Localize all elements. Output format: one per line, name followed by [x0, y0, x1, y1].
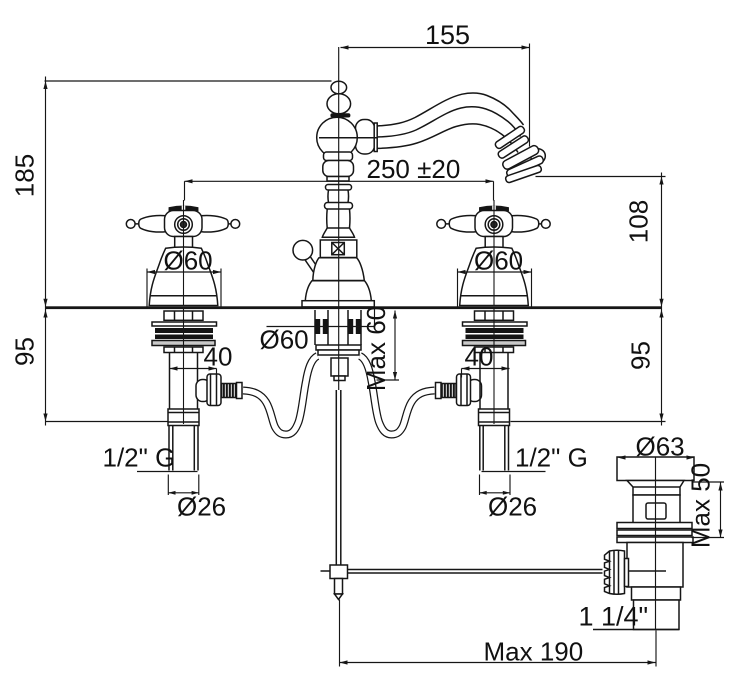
dimension 250 +-20 (handle centres) [185, 154, 494, 201]
finial large ball [327, 94, 351, 114]
right valve bulb [468, 380, 482, 402]
centre inlet tube left [315, 310, 328, 345]
mounting block [320, 240, 357, 258]
pop-up rod [336, 390, 341, 565]
right handle right ball [541, 220, 550, 229]
centre bell plinth [302, 301, 374, 307]
svg-text:1/2" G: 1/2" G [103, 443, 176, 473]
aerator outlet band [505, 165, 542, 184]
pop-up rod coupling block [330, 565, 348, 579]
left hose corrugated connector [222, 384, 238, 398]
right shank hex nut [475, 347, 514, 353]
drain flange [617, 457, 694, 481]
left shank hex nut [164, 347, 203, 353]
drain washer 1 [617, 523, 692, 529]
left handle hub circles [175, 216, 193, 234]
left handle cap [169, 206, 197, 210]
left handle centreline [183, 200, 185, 305]
right handle right teardrop arm [511, 215, 539, 232]
mounting block X square [332, 243, 345, 255]
left valve hex body [207, 374, 221, 406]
right shank washer 1 [463, 322, 528, 326]
spout tube bottom line [377, 124, 518, 153]
dimension Ø26 left [168, 475, 226, 522]
left hose end ring [237, 383, 243, 399]
label 1/2" G right [482, 443, 588, 473]
centre bell lower dome [305, 281, 371, 301]
aerator band 3 [501, 144, 540, 170]
drain flange taper [627, 481, 684, 496]
right handle arm line [441, 223, 547, 225]
left valve bulb [196, 380, 210, 402]
drain centreline [655, 457, 657, 630]
label 1 1/4" (drain thread) [579, 602, 649, 632]
drain rod knurled nut [605, 550, 625, 595]
dimension 40 right [462, 342, 510, 378]
left handle hub [165, 211, 203, 237]
spout tube middle line [377, 107, 521, 137]
left handle right teardrop arm [201, 215, 229, 232]
dimension Max 190 (bottom) [340, 600, 657, 667]
centre tailpiece [331, 358, 348, 381]
right shank centreline [493, 309, 495, 424]
label 1/2" G left [103, 443, 198, 473]
svg-text:Ø26: Ø26 [488, 492, 537, 522]
left shank centreline [183, 309, 185, 424]
left handle right ball [231, 220, 240, 229]
left shank washer 2 (dark) [155, 328, 213, 333]
right shank washer 4 (grey) [463, 341, 526, 346]
drain tailpipe bottom / 1 1/4 underline [593, 629, 679, 631]
dimension Ø60 right handle [458, 246, 532, 307]
faucet centreline [338, 47, 340, 390]
drain rod nut collar [625, 559, 629, 587]
column ring 2 [325, 203, 353, 210]
svg-text:Ø60: Ø60 [260, 325, 309, 355]
right shank coupling nut [479, 409, 510, 426]
column ring 1 [326, 185, 352, 191]
dimension Max 60 (deck thickness centre) [361, 306, 399, 391]
dimension 95 right [511, 307, 666, 426]
column flare [322, 228, 354, 237]
aerator band 2 [497, 135, 530, 160]
right hose [360, 356, 435, 435]
right shank upper tube [480, 353, 508, 410]
svg-text:185: 185 [10, 154, 40, 197]
right hose end ring [436, 383, 442, 399]
left shank coupling nut [168, 409, 199, 426]
drain lower body [627, 543, 683, 588]
right valve hex body [457, 374, 471, 406]
right handle hub [475, 211, 513, 237]
pop-up lever rod [305, 256, 321, 276]
centre clamp plate [316, 345, 361, 355]
svg-text:Ø60: Ø60 [164, 246, 213, 276]
svg-text:Ø26: Ø26 [177, 492, 226, 522]
aerator band 4 [506, 155, 545, 178]
deck / mounting surface [45, 306, 661, 309]
right handle group (centre x=494) [437, 200, 550, 306]
spout body (round chamber) [317, 117, 358, 158]
label Ø60 centre column [260, 309, 375, 355]
dimension 155 (top, spout reach) [341, 20, 530, 147]
column rim [327, 177, 349, 182]
left shank washer 3 (dark) [155, 335, 213, 340]
right handle cap [480, 206, 508, 210]
right handle hub circles [485, 216, 503, 234]
left shank washer 1 [152, 322, 217, 326]
svg-text:40: 40 [204, 342, 233, 372]
svg-text:40: 40 [465, 342, 494, 372]
left hose [243, 356, 318, 435]
svg-text:250 ±20: 250 ±20 [367, 154, 461, 184]
column shaft [327, 209, 350, 228]
right handle left teardrop arm [449, 215, 477, 232]
svg-text:Max 50: Max 50 [686, 463, 716, 548]
right handle bell [460, 247, 529, 306]
dimension Ø26 right [480, 475, 538, 522]
left handle bell [149, 247, 218, 306]
svg-text:Max 60: Max 60 [361, 306, 391, 391]
pop-up rod lower pin [335, 579, 343, 600]
right handle left ball [437, 220, 446, 229]
left shank locknut [164, 311, 203, 320]
column barrel bulge [323, 161, 354, 177]
left handle left teardrop arm [139, 215, 167, 232]
left shank washer 4 (grey) [152, 341, 215, 346]
drain washer 3 [617, 537, 693, 543]
right shank lower tube [480, 426, 509, 471]
pop-up lever ball [293, 240, 313, 260]
finial small ball [331, 81, 347, 94]
right shank locknut [475, 311, 514, 320]
dimension 40 left (hose offset) [170, 342, 233, 378]
dimension 108 (right, spout outlet height) [536, 173, 666, 307]
svg-text:Ø63: Ø63 [636, 432, 685, 462]
centre inlet tube right [348, 310, 361, 345]
left handle left ball [126, 220, 135, 229]
left handle group (centre x=183.5) [126, 200, 239, 306]
drain body square detail [646, 503, 666, 519]
drain tailpipe [634, 600, 680, 630]
right shank washer 2 (dark) [466, 328, 524, 333]
horizontal drain rod [348, 570, 603, 574]
dimension 95 left (depth below deck) [10, 307, 169, 426]
column waist [328, 190, 349, 203]
svg-text:Ø60: Ø60 [474, 246, 523, 276]
drain upper body [633, 495, 680, 523]
aerator band 1 [494, 125, 526, 150]
right handle bell ridge [460, 295, 528, 297]
svg-text:1/2" G: 1/2" G [515, 443, 588, 473]
left shank lower tube [169, 426, 198, 471]
svg-text:155: 155 [425, 20, 470, 50]
centre bell upper dome [313, 258, 365, 281]
right handle centreline [493, 200, 495, 305]
left handle bell ridge [150, 295, 218, 297]
spout connector egg [356, 120, 375, 155]
spout connector collar [374, 123, 377, 152]
spout tube top line [377, 93, 524, 126]
left handle arm line [130, 223, 236, 225]
right shank washer 3 (dark) [466, 335, 524, 340]
svg-text:108: 108 [624, 200, 654, 243]
right handle stem [485, 237, 503, 249]
left handle stem [175, 237, 193, 249]
svg-text:Max 190: Max 190 [484, 637, 584, 667]
svg-text:1 1/4": 1 1/4" [579, 602, 649, 632]
drain transition [632, 587, 681, 600]
dimension Max 50 (drain deck range) [686, 463, 725, 548]
svg-text:95: 95 [10, 337, 40, 366]
left shank upper tube [170, 353, 198, 410]
dimension Ø60 left handle [147, 246, 221, 307]
aerator end cap ball [531, 149, 546, 164]
drain washer 2 [617, 530, 692, 536]
spout axis line [319, 137, 377, 139]
column shoulder band [324, 152, 353, 161]
svg-text:95: 95 [626, 341, 656, 370]
right hose corrugated connector [441, 384, 457, 398]
dimension Ø63 (drain flange) [618, 432, 695, 462]
drain rod inside body [628, 570, 666, 572]
ball seat dark band [330, 113, 350, 117]
dimension 185 (left, height above deck) [10, 77, 332, 307]
pop-up rod coupling tick [321, 570, 331, 572]
